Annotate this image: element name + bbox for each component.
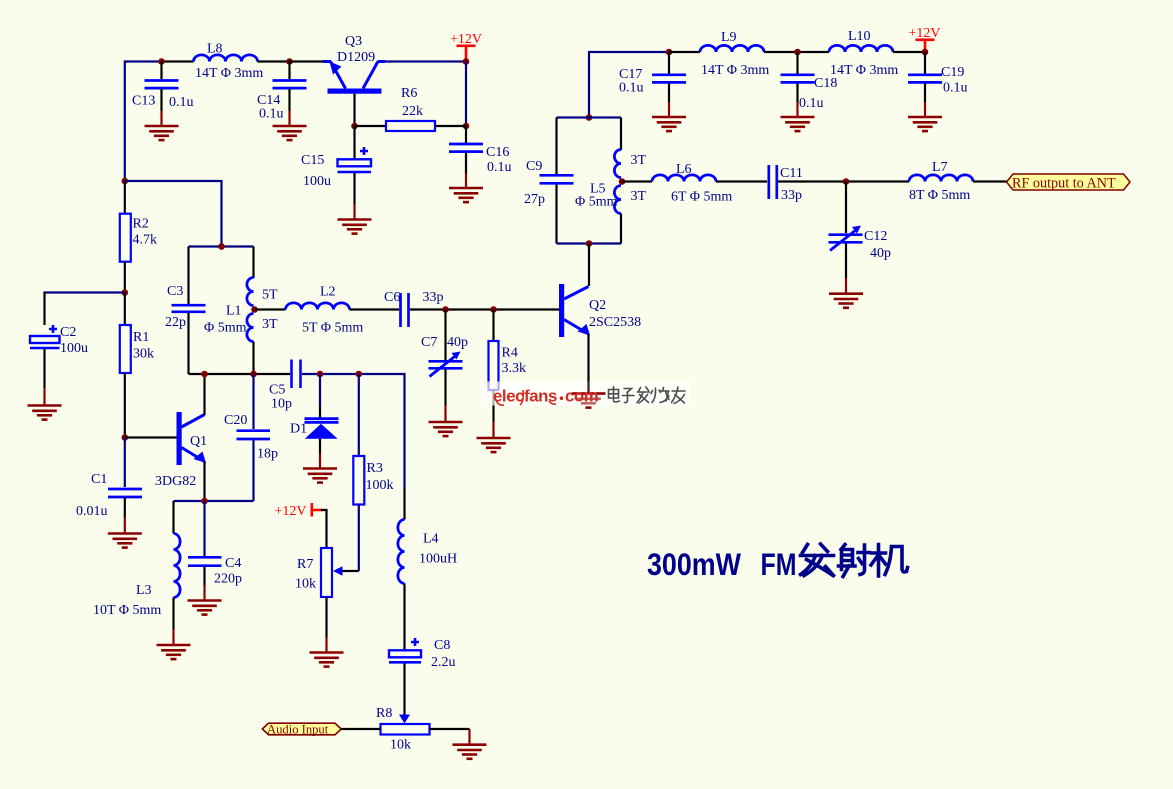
svg-text:C2: C2 bbox=[60, 325, 76, 340]
wire Q3 base down bbox=[353, 94, 355, 126]
capacitor C19 bbox=[908, 52, 968, 117]
svg-text:D1209: D1209 bbox=[337, 50, 375, 65]
transistor Q3 bbox=[323, 34, 386, 94]
svg-text:L10: L10 bbox=[848, 29, 871, 44]
svg-text:10p: 10p bbox=[271, 397, 292, 412]
svg-text:RF output to ANT: RF output to ANT bbox=[1012, 176, 1116, 192]
capacitor C8 (electrolytic) bbox=[389, 638, 456, 717]
svg-text:10k: 10k bbox=[390, 738, 411, 753]
node tank2 top bbox=[586, 114, 593, 121]
wire L7 to RF port bbox=[973, 180, 1007, 182]
svg-text:C8: C8 bbox=[434, 638, 450, 653]
capacitor C12 (variable) bbox=[829, 182, 892, 294]
svg-text:R8: R8 bbox=[376, 706, 392, 721]
node tank1 top bbox=[218, 243, 225, 250]
svg-text:C20: C20 bbox=[224, 413, 247, 428]
ground L3 bbox=[157, 645, 191, 659]
wire base Q1 bbox=[125, 436, 177, 438]
svg-text:33p: 33p bbox=[423, 290, 444, 305]
ground C2 bbox=[28, 406, 62, 420]
wire L1 tap to L2 bbox=[255, 308, 286, 310]
capacitor C1 bbox=[76, 438, 142, 534]
svg-text:14T Φ 3mm: 14T Φ 3mm bbox=[195, 66, 263, 81]
title 300mW FM bbox=[647, 546, 797, 582]
wire audio port to R8 bbox=[341, 728, 380, 730]
svg-text:D1: D1 bbox=[290, 422, 307, 437]
capacitor C20 bbox=[224, 374, 278, 501]
svg-text:C9: C9 bbox=[526, 159, 542, 174]
svg-text:22k: 22k bbox=[402, 104, 423, 119]
svg-text:Q3: Q3 bbox=[345, 34, 362, 49]
svg-text:0.01u: 0.01u bbox=[76, 504, 108, 519]
node R1 top / C2 bbox=[122, 289, 129, 296]
svg-text:33p: 33p bbox=[781, 188, 802, 203]
svg-text:C15: C15 bbox=[301, 153, 324, 168]
node C18 tap bbox=[794, 49, 801, 56]
wire to C2 bbox=[45, 292, 125, 326]
svg-text:3.3k: 3.3k bbox=[502, 361, 527, 376]
svg-text:L2: L2 bbox=[320, 285, 336, 300]
svg-text:0.1u: 0.1u bbox=[169, 95, 194, 110]
ground Q2 emitter bbox=[572, 394, 606, 408]
capacitor C15 (electrolytic) bbox=[301, 126, 371, 219]
ground C16 bbox=[449, 188, 483, 202]
svg-text:5T Φ 5mm: 5T Φ 5mm bbox=[302, 321, 363, 336]
inductor L9 bbox=[700, 30, 769, 78]
svg-text:R2: R2 bbox=[133, 217, 149, 232]
svg-text:C18: C18 bbox=[814, 76, 837, 91]
title 发射机 (hand-drawn) bbox=[801, 544, 908, 577]
transistor Q1 bbox=[155, 412, 207, 489]
svg-text:R3: R3 bbox=[367, 461, 383, 476]
wire L9 to C18 bbox=[764, 51, 829, 53]
watermark 电子发烧友 (hand-drawn) bbox=[609, 387, 686, 404]
node emitter junction bbox=[201, 498, 208, 505]
node L5 tap bbox=[619, 178, 626, 185]
svg-text:R1: R1 bbox=[133, 330, 149, 345]
wire L6 to C11 bbox=[716, 180, 767, 182]
svg-text:100u: 100u bbox=[303, 174, 331, 189]
R8 wiper arrow bbox=[399, 715, 410, 724]
svg-text:elecfans: elecfans bbox=[493, 387, 557, 406]
svg-text:0.1u: 0.1u bbox=[799, 96, 824, 111]
inductor L1 (tapped) bbox=[204, 247, 278, 375]
node Q1 base / C1 bbox=[122, 434, 129, 441]
inductor L2 bbox=[286, 285, 364, 336]
svg-text:220p: 220p bbox=[214, 572, 242, 587]
capacitor C16 bbox=[449, 126, 512, 188]
svg-text:10k: 10k bbox=[295, 577, 316, 592]
svg-text:L3: L3 bbox=[136, 583, 152, 598]
svg-text:0.1u: 0.1u bbox=[943, 81, 968, 96]
svg-text:L1: L1 bbox=[226, 304, 242, 319]
wire L10 to +12V node bbox=[893, 51, 925, 53]
svg-text:3T: 3T bbox=[262, 317, 278, 332]
resistor R8 (pot) bbox=[376, 706, 430, 753]
svg-text:10T Φ 5mm: 10T Φ 5mm bbox=[93, 603, 161, 618]
wire Q1 emitter down bbox=[203, 462, 205, 502]
svg-text:C12: C12 bbox=[864, 229, 887, 244]
ground C13 bbox=[145, 126, 179, 140]
wire L8 to C14 bbox=[258, 60, 290, 62]
wire Q2 emitter over watermark bbox=[587, 381, 589, 393]
inductor L5 (tapped) bbox=[575, 118, 647, 244]
capacitor C18 bbox=[781, 52, 838, 117]
transistor Q2 bbox=[559, 284, 641, 337]
svg-text:L8: L8 bbox=[207, 42, 223, 57]
capacitor C9 bbox=[524, 118, 574, 244]
svg-text:14T Φ 3mm: 14T Φ 3mm bbox=[830, 63, 898, 78]
node left rail / tank feed bbox=[122, 178, 129, 185]
ground C4 bbox=[188, 601, 222, 615]
node R4 tap bbox=[490, 306, 497, 313]
svg-text:22p: 22p bbox=[165, 315, 186, 330]
inductor L4 bbox=[398, 488, 457, 650]
svg-text:R4: R4 bbox=[502, 346, 518, 361]
diode D1 (varactor) bbox=[290, 374, 339, 468]
svg-text:3T: 3T bbox=[631, 189, 647, 204]
wire +12V down to R6 node bbox=[465, 62, 467, 127]
power +12V top-right bbox=[909, 26, 941, 51]
resistor R4 bbox=[489, 310, 527, 438]
svg-text:4.7k: 4.7k bbox=[133, 233, 158, 248]
node R6 right bbox=[463, 123, 470, 130]
wire tank1 bottom rail right / down to L4 bbox=[302, 374, 405, 488]
svg-text:C5: C5 bbox=[269, 383, 285, 398]
svg-text:40p: 40p bbox=[870, 246, 891, 261]
svg-text:C19: C19 bbox=[941, 65, 964, 80]
wire tank1 bottom rail left bbox=[189, 373, 291, 375]
svg-text:27p: 27p bbox=[524, 192, 545, 207]
wire L2 to C6 bbox=[350, 308, 400, 310]
node C14 tap bbox=[286, 58, 293, 65]
svg-text:R7: R7 bbox=[297, 557, 313, 572]
svg-text:L6: L6 bbox=[676, 162, 692, 177]
svg-text:30k: 30k bbox=[133, 347, 154, 362]
node +12V top-right bbox=[922, 49, 929, 56]
node tank2 bottom bbox=[586, 240, 593, 247]
ground R7 bbox=[310, 653, 344, 667]
svg-text:100k: 100k bbox=[366, 478, 394, 493]
ground C1 bbox=[108, 534, 142, 548]
svg-text:Q1: Q1 bbox=[190, 434, 207, 449]
node Q1 collector on rail bbox=[201, 371, 208, 378]
wire tank1 feed bbox=[125, 181, 222, 247]
svg-text:0.1u: 0.1u bbox=[259, 107, 284, 122]
inductor L7 bbox=[909, 160, 973, 203]
node D1 top bbox=[317, 371, 324, 378]
node C12 tap bbox=[843, 178, 850, 185]
wire emitter rail y501 bbox=[174, 500, 254, 502]
node C17 tap bbox=[666, 49, 673, 56]
capacitor C3 bbox=[165, 247, 206, 375]
svg-text:C3: C3 bbox=[167, 284, 183, 299]
svg-text:2SC2538: 2SC2538 bbox=[589, 315, 641, 330]
ground C18 bbox=[781, 117, 815, 131]
svg-text:2.2u: 2.2u bbox=[431, 655, 456, 670]
svg-text:18p: 18p bbox=[257, 447, 278, 462]
svg-text:C6: C6 bbox=[384, 290, 400, 305]
ground R4 bbox=[477, 438, 511, 452]
node Q3 base / R6 left bbox=[351, 123, 358, 130]
svg-text:300mW: 300mW bbox=[647, 546, 741, 582]
svg-text:C13: C13 bbox=[132, 94, 155, 109]
wire C6 to Q2 base bbox=[410, 308, 559, 310]
wire tank2 bottom rail bbox=[557, 242, 622, 244]
resistor R7 (pot) bbox=[295, 510, 332, 652]
wire tank2 top rail bbox=[557, 116, 622, 118]
watermark background bbox=[482, 382, 690, 406]
ground C14 bbox=[273, 126, 307, 140]
capacitor C14 bbox=[257, 62, 307, 126]
wire L5 tap to L6 bbox=[622, 180, 652, 182]
svg-text:100uH: 100uH bbox=[419, 552, 457, 567]
wire tank2 to Q2 collector bbox=[588, 244, 590, 287]
svg-text:40p: 40p bbox=[447, 335, 468, 350]
capacitor C2 (electrolytic) bbox=[30, 325, 88, 405]
wire Q3 collector to +12V node bbox=[386, 60, 467, 62]
capacitor C4 bbox=[188, 501, 242, 600]
capacitor C5 (series) bbox=[269, 360, 301, 412]
svg-text:C16: C16 bbox=[486, 145, 509, 160]
svg-text:0.1u: 0.1u bbox=[619, 81, 644, 96]
ground Q2 emitter over watermark bbox=[572, 394, 606, 404]
wire R8 to ground bbox=[430, 729, 470, 744]
node +12V top-left bbox=[463, 58, 470, 65]
svg-text:L9: L9 bbox=[721, 30, 737, 45]
svg-text:14T Φ 3mm: 14T Φ 3mm bbox=[701, 63, 769, 78]
ground C7 bbox=[429, 422, 463, 436]
svg-text:5T: 5T bbox=[262, 288, 278, 303]
wire top-right rail bbox=[589, 52, 669, 118]
wire C11 to L7 bbox=[778, 180, 909, 182]
svg-text:C1: C1 bbox=[91, 472, 107, 487]
inductor L10 bbox=[829, 29, 898, 78]
svg-text:R6: R6 bbox=[401, 86, 417, 101]
svg-text:FM: FM bbox=[761, 546, 797, 582]
resistor R3 bbox=[353, 374, 393, 571]
svg-text:6T Φ 5mm: 6T Φ 5mm bbox=[671, 190, 732, 205]
ground R8 bbox=[453, 745, 487, 759]
resistor R6 bbox=[355, 86, 467, 131]
svg-text:0.1u: 0.1u bbox=[487, 160, 512, 175]
svg-text:100u: 100u bbox=[60, 341, 88, 356]
svg-text:Φ 5mm: Φ 5mm bbox=[204, 321, 247, 336]
svg-text:L4: L4 bbox=[423, 532, 439, 547]
svg-text:Audio Input: Audio Input bbox=[267, 723, 329, 737]
svg-text:C4: C4 bbox=[225, 556, 241, 571]
svg-text:com: com bbox=[565, 387, 598, 406]
wire top-left rail vertical bbox=[125, 62, 162, 182]
wire rail to L8 bbox=[162, 60, 194, 62]
inductor L8 bbox=[194, 42, 264, 82]
resistor R2 bbox=[120, 181, 157, 293]
power +12V top-left bbox=[450, 32, 482, 60]
ground C15 bbox=[338, 220, 372, 234]
svg-text:Q2: Q2 bbox=[589, 298, 606, 313]
node L1 tap bbox=[251, 306, 258, 313]
svg-text:3DG82: 3DG82 bbox=[155, 474, 196, 489]
capacitor C11 (series) bbox=[769, 165, 803, 203]
node C20 top bbox=[250, 371, 257, 378]
ground C12 bbox=[829, 294, 863, 308]
power +12V R7 bbox=[275, 503, 323, 519]
svg-text:Φ 5mm: Φ 5mm bbox=[575, 195, 618, 210]
inductor L3 bbox=[93, 501, 180, 645]
capacitor C17 bbox=[619, 52, 686, 117]
ground C17 bbox=[652, 117, 686, 131]
wire tank1 top rail bbox=[189, 245, 254, 247]
svg-text:+12V: +12V bbox=[275, 504, 307, 519]
svg-text:C11: C11 bbox=[780, 166, 803, 181]
wire C14 to Q3 emitter bbox=[290, 60, 324, 62]
node R3 top bbox=[356, 371, 363, 378]
resistor R1 bbox=[120, 293, 154, 438]
node C13 tap bbox=[158, 58, 165, 65]
capacitor C13 bbox=[132, 62, 194, 126]
watermark elecfans.com bbox=[493, 387, 598, 406]
node C7 tap bbox=[442, 306, 449, 313]
wire rail to L9 bbox=[669, 51, 700, 53]
capacitor C7 (variable) bbox=[421, 310, 468, 422]
wire Q1 collector up to rail bbox=[203, 374, 205, 415]
ground D1 bbox=[303, 469, 337, 483]
svg-text:3T: 3T bbox=[631, 153, 647, 168]
svg-text:L7: L7 bbox=[932, 160, 948, 175]
svg-text:8T Φ 5mm: 8T Φ 5mm bbox=[909, 188, 970, 203]
svg-text:C7: C7 bbox=[421, 335, 437, 350]
ground C19 bbox=[908, 117, 942, 131]
port Audio Input bbox=[262, 723, 341, 737]
capacitor C6 (series) bbox=[384, 290, 444, 327]
port RF output to ANT bbox=[1007, 174, 1131, 192]
R7 wiper arrow bbox=[333, 566, 343, 575]
wire Q2 emitter to ground bbox=[587, 334, 589, 393]
wire R3 to R7 wiper bbox=[341, 570, 359, 572]
inductor L6 bbox=[652, 162, 732, 205]
